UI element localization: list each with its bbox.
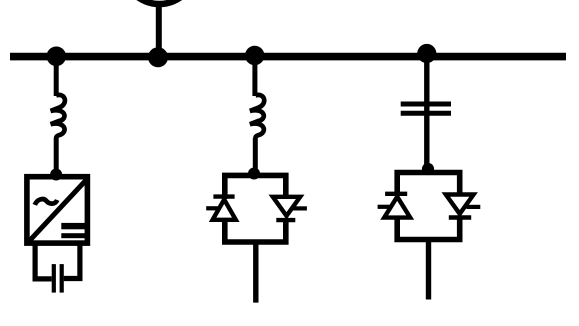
node N4 (bus junction, TSC branch) bbox=[417, 44, 436, 63]
wire: U1 left DC lead bbox=[35, 245, 52, 279]
node A (U1 AC terminal) bbox=[50, 169, 62, 181]
U1 diagonal bbox=[27, 178, 89, 244]
wire: N4 to C2 bbox=[424, 57, 429, 114]
inductor L1 bbox=[51, 95, 65, 138]
thyristor Q2 (right, conducts down) bbox=[273, 197, 307, 220]
node C (TSC valve top) bbox=[422, 163, 434, 175]
capacitor C2 bbox=[401, 104, 451, 113]
node N3 (bus junction, TCR branch) bbox=[245, 46, 264, 65]
wire: L2 to TCR valve bbox=[253, 138, 258, 173]
generator G1 bbox=[123, 0, 196, 4]
node N1 (bus junction, STATCOM branch) bbox=[47, 47, 67, 67]
wire: G1 to bus bbox=[156, 4, 162, 57]
wire: TCR loop top rail and upper sides bbox=[225, 175, 286, 199]
bus bbox=[10, 53, 566, 61]
wire: TSC loop top rail and upper sides bbox=[397, 173, 460, 197]
wire: N1 to L1 bbox=[54, 60, 59, 96]
wire: TSC loop bottom rail and lower sides bbox=[397, 216, 460, 240]
converter U1 box bbox=[27, 177, 88, 243]
capacitor C1 (DC link) bbox=[54, 264, 62, 293]
node N2 (bus junction, generator) bbox=[148, 47, 168, 67]
node B (TCR valve top) bbox=[248, 168, 260, 180]
thyristor Q1 (left, conducts up) bbox=[206, 197, 236, 220]
wire: C2 to TSC valve bbox=[424, 113, 429, 169]
inductor L2 bbox=[250, 95, 264, 138]
wire: TSC valve to load bbox=[426, 240, 431, 300]
U1 DC-side symbol (=) bbox=[61, 223, 87, 238]
wire: U1 right DC lead bbox=[64, 245, 80, 279]
wire: L1 to U1 bbox=[54, 138, 59, 175]
wire: N3 to L2 bbox=[252, 60, 257, 96]
wire: TCR loop bottom rail and lower sides bbox=[225, 218, 286, 242]
thyristor Q4 (right, conducts down) bbox=[446, 195, 481, 218]
wire: TCR valve to load bbox=[253, 242, 258, 303]
thyristor Q3 (left, conducts up) bbox=[378, 194, 411, 218]
U1 AC-side symbol (~) bbox=[35, 199, 57, 205]
